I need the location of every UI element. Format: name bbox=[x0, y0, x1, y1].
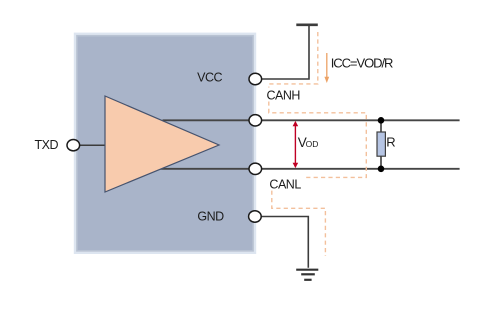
svg-text:VCC: VCC bbox=[197, 70, 222, 84]
svg-text:GND: GND bbox=[197, 209, 224, 223]
svg-text:CANH: CANH bbox=[266, 88, 300, 102]
svg-text:OD: OD bbox=[306, 139, 319, 149]
svg-text:TXD: TXD bbox=[35, 138, 59, 152]
svg-text:R: R bbox=[386, 134, 395, 149]
svg-text:CANL: CANL bbox=[269, 177, 301, 191]
svg-text:ICC=VOD/R: ICC=VOD/R bbox=[331, 56, 393, 71]
